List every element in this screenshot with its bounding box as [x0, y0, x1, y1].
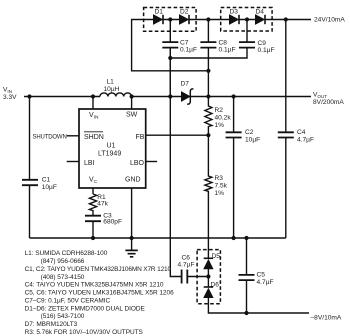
svg-text:C6: C6 — [182, 254, 191, 261]
node D5 D6 midpoint — [206, 274, 210, 278]
capacitor C6 — [182, 270, 188, 284]
wire VC pin to R1 — [92, 188, 94, 194]
wire SW pin — [131, 97, 133, 110]
resistor R3 — [205, 135, 212, 258]
svg-text:C2: C2 — [245, 129, 254, 136]
svg-text:U1: U1 — [107, 143, 116, 150]
node GND pin ground — [130, 236, 134, 240]
svg-text:L1: SUMIDA CDRH6288-100: L1: SUMIDA CDRH6288-100 — [25, 250, 108, 257]
svg-text:1%: 1% — [215, 190, 225, 197]
svg-text:VC: VC — [89, 176, 98, 185]
wire LBI stub — [67, 161, 79, 163]
svg-text:4.7µF: 4.7µF — [297, 137, 314, 144]
wire C6 to D5 D6 midpoint — [187, 276, 208, 278]
diode D3 — [230, 15, 239, 24]
wire D1 feed from VOUT — [132, 20, 209, 71]
wire VIN pin — [92, 97, 94, 110]
svg-text:C9: C9 — [258, 40, 267, 47]
wire D5 anode to midpoint — [207, 269, 209, 287]
svg-text:680pF: 680pF — [103, 219, 122, 226]
svg-text:D6: D6 — [211, 281, 220, 288]
svg-text:D7: MBRM120LT3: D7: MBRM120LT3 — [25, 321, 78, 328]
svg-text:C8: C8 — [219, 39, 228, 46]
svg-text:VIN: VIN — [3, 87, 12, 94]
node VOUT/C2 — [232, 94, 236, 98]
svg-text:(408) 573-4150: (408) 573-4150 — [41, 274, 85, 281]
svg-text:C5, C6: TAIYO YUDEN LMK316BJ47: C5, C6: TAIYO YUDEN LMK316BJ475ML X5R 12… — [25, 290, 174, 297]
wire C9 bottom to SW column — [170, 48, 247, 58]
wire SW column to C6 — [170, 48, 181, 277]
svg-text:C4: TAIYO YUDEN TMK325BJ475MN: C4: TAIYO YUDEN TMK325BJ475MN X5R 1210 — [25, 282, 164, 289]
node SW/C7 — [168, 94, 172, 98]
wire D3-D4 — [239, 19, 256, 21]
node SW — [130, 94, 134, 98]
svg-text:SHDN: SHDN — [84, 134, 104, 141]
svg-text:SW: SW — [126, 112, 138, 119]
svg-text:LT1949: LT1949 — [98, 150, 121, 157]
svg-text:4.7µF: 4.7µF — [178, 261, 195, 268]
svg-text:1%: 1% — [215, 122, 225, 129]
wire 24V node down to C4 — [285, 20, 287, 133]
wire GND pin — [131, 188, 133, 238]
svg-text:VIN: VIN — [89, 112, 99, 121]
node VIN/C1 — [27, 94, 31, 98]
dual diode package box D1 D2 — [144, 8, 197, 32]
node VOUT/D7 — [206, 94, 210, 98]
svg-text:40.2k: 40.2k — [215, 115, 232, 122]
svg-text:3.3V: 3.3V — [3, 94, 17, 101]
diode D1 — [154, 15, 163, 24]
svg-text:GND: GND — [125, 176, 141, 183]
svg-text:C7: C7 — [180, 39, 189, 46]
diode D4 — [256, 15, 265, 24]
wire SW node rail — [132, 96, 182, 98]
node C8 bottom — [206, 69, 210, 73]
svg-text:0.1µF: 0.1µF — [219, 46, 236, 53]
wire LBO stub — [146, 161, 157, 163]
svg-text:D1–D6: ZETEX FMMD7000 DUAL DIO: D1–D6: ZETEX FMMD7000 DUAL DIODE — [25, 305, 146, 312]
diode D5 — [204, 257, 213, 259]
IC U1 LT1949 box — [79, 109, 146, 188]
wire C4 bottom to ground rail — [285, 138, 287, 239]
svg-text:C1, C2: TAIYO YUDEN TMK432BJ10: C1, C2: TAIYO YUDEN TMK432BJ106MN X7R 12… — [25, 266, 172, 273]
svg-text:(516) 543-7100: (516) 543-7100 — [41, 313, 85, 320]
svg-text:SHUTDOWN: SHUTDOWN — [33, 134, 67, 140]
svg-text:L1: L1 — [107, 79, 115, 86]
node 24V — [284, 17, 288, 21]
wire D6 anode to -8V rail — [208, 298, 309, 314]
node C7 top — [168, 17, 172, 21]
wire ground rail — [30, 237, 286, 239]
wire VOUT rail — [190, 96, 311, 98]
capacitor C7 — [169, 20, 171, 97]
node C9 top — [245, 17, 249, 21]
node C5 -8V — [244, 311, 248, 315]
svg-text:LBI: LBI — [84, 160, 95, 167]
node VIN pin — [91, 94, 95, 98]
diode D2 — [180, 15, 189, 24]
dual diode package box D3 D4 — [221, 8, 272, 32]
capacitor C9 — [246, 20, 248, 43]
svg-text:C7–C9: 0.1µF, 50V CERAMIC: C7–C9: 0.1µF, 50V CERAMIC — [25, 298, 111, 305]
svg-text:(847) 956-0666: (847) 956-0666 — [41, 258, 85, 265]
capacitor C8 — [207, 20, 209, 97]
svg-text:D1: D1 — [155, 9, 164, 16]
diode D6 — [204, 286, 213, 288]
svg-text:R3: R3 — [215, 175, 224, 182]
svg-text:D7: D7 — [181, 81, 190, 88]
node R1 ground — [91, 236, 95, 240]
svg-text:D5: D5 — [212, 253, 221, 260]
svg-text:C5: C5 — [257, 271, 266, 278]
node C2 ground — [232, 236, 236, 240]
svg-text:8V/200mA: 8V/200mA — [313, 99, 344, 106]
svg-text:LBO: LBO — [130, 160, 145, 167]
parts list — [25, 250, 174, 336]
svg-text:10µF: 10µF — [42, 184, 57, 191]
svg-text:D3: D3 — [230, 9, 239, 16]
svg-text:C1: C1 — [42, 176, 51, 183]
svg-text:0.1µF: 0.1µF — [180, 46, 197, 53]
svg-text:10µF: 10µF — [245, 137, 260, 144]
wire D1-D2 — [163, 19, 180, 21]
wire VIN rail — [24, 96, 100, 98]
resistor R1 — [89, 194, 96, 216]
node FB — [206, 133, 210, 137]
svg-text:R3: 5.76k FOR 10V/–10V/30V OUT: R3: 5.76k FOR 10V/–10V/30V OUTPUTS — [25, 329, 144, 336]
capacitor C4 — [278, 132, 294, 137]
wire C3 to ground rail — [92, 221, 94, 238]
svg-text:10µH: 10µH — [104, 86, 120, 93]
wire D2-D3 — [189, 19, 230, 21]
capacitor C3 — [85, 216, 101, 222]
wire C1 branch — [29, 97, 31, 239]
svg-text:C4: C4 — [297, 129, 306, 136]
svg-text:47k: 47k — [97, 200, 108, 207]
node C7 bottom — [168, 56, 172, 60]
ground symbol — [131, 238, 133, 250]
inductor L1 — [100, 93, 132, 97]
capacitor C5 — [246, 238, 248, 313]
capacitor C1 — [22, 180, 38, 185]
svg-text:D2: D2 — [180, 9, 189, 16]
diode D7 — [182, 92, 190, 101]
svg-text:–8V/10mA: –8V/10mA — [311, 314, 342, 321]
svg-text:4.7µF: 4.7µF — [257, 279, 274, 286]
node C5 ground — [244, 236, 248, 240]
node C8 top — [206, 17, 210, 21]
wire FB line — [146, 134, 209, 136]
capacitor C2 — [233, 97, 235, 239]
resistor R2 — [205, 97, 212, 136]
svg-text:7.5k: 7.5k — [215, 183, 228, 190]
wire SHDN stub — [67, 135, 79, 137]
svg-text:FB: FB — [136, 134, 145, 141]
svg-text:R2: R2 — [215, 107, 224, 114]
svg-text:VOUT: VOUT — [313, 92, 327, 99]
dual diode package box D5 D6 — [197, 250, 220, 304]
IC pin labels — [84, 112, 145, 185]
svg-text:0.1µF: 0.1µF — [258, 47, 275, 54]
wire D4 to 24V output — [265, 19, 311, 21]
svg-text:24V/10mA: 24V/10mA — [314, 17, 345, 24]
svg-text:D4: D4 — [256, 9, 265, 16]
